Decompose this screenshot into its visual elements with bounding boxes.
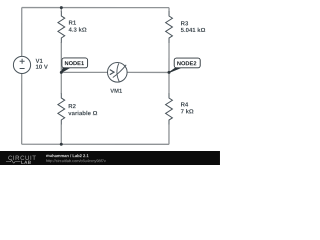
- node NODE2 flag pointer: [169, 68, 181, 73]
- junction dot node2: [168, 71, 171, 74]
- voltmeter VM1: [107, 62, 127, 82]
- wire middle branch lower (R2 to bottom rail): [60, 124, 62, 144]
- svg-text:http://circuitlab.com/c6u4rxny: http://circuitlab.com/c6u4rxny98f7v: [46, 158, 106, 163]
- voltage source V1: [13, 56, 30, 73]
- wire bottom horizontal: [22, 143, 169, 145]
- svg-text:VM1: VM1: [110, 89, 123, 95]
- resistor R4: [166, 94, 173, 125]
- resistor R1: [58, 11, 65, 42]
- svg-text:5.041 kΩ: 5.041 kΩ: [181, 28, 206, 34]
- footer black bar: [0, 151, 220, 165]
- wire left vertical (V1 to bottom): [21, 73, 23, 144]
- svg-text:R2: R2: [68, 104, 76, 110]
- junction dot node1: [60, 71, 63, 74]
- svg-text:10 V: 10 V: [36, 65, 48, 71]
- CircuitLab logo wave: [6, 160, 21, 163]
- wire middle branch (R1 to R2): [60, 42, 62, 94]
- svg-text:4.3 kΩ: 4.3 kΩ: [69, 28, 87, 34]
- resistor R3: [166, 12, 173, 43]
- svg-text:R1: R1: [69, 21, 77, 27]
- node NODE1 flag pointer: [61, 68, 69, 73]
- svg-text:7 kΩ: 7 kΩ: [181, 109, 194, 115]
- wire voltmeter right (VM1 to NODE2): [127, 71, 169, 73]
- wire right branch upper (top rail to R3): [168, 8, 170, 12]
- node NODE2 box: [174, 58, 200, 68]
- wire left vertical (top segment to V1): [21, 8, 23, 57]
- svg-text:R4: R4: [181, 103, 189, 109]
- svg-text:NODE1: NODE1: [65, 61, 85, 67]
- svg-text:R3: R3: [181, 21, 189, 27]
- wire middle branch upper (top rail to R1): [60, 8, 62, 12]
- svg-text:NODE2: NODE2: [177, 61, 197, 67]
- node NODE1 box: [62, 58, 88, 68]
- svg-text:variable Ω: variable Ω: [68, 111, 97, 117]
- resistor R2 (variable): [58, 93, 65, 124]
- wire top horizontal: [22, 7, 169, 9]
- wire right branch lower (R4 to bottom rail): [168, 125, 170, 145]
- wire right branch (R3 to R4): [168, 42, 170, 94]
- junction dot bottom rail: [60, 143, 63, 146]
- svg-text:LAB: LAB: [21, 160, 32, 165]
- junction dot top rail: [60, 6, 63, 9]
- wire voltmeter left (NODE1 to VM1): [61, 71, 108, 73]
